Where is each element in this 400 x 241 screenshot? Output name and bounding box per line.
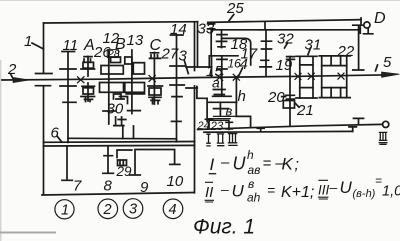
ring gear b box bottom xyxy=(208,116,237,120)
svg-text:D: D xyxy=(374,10,386,27)
svg-text:24: 24 xyxy=(197,120,210,132)
gear 20 clutch bars xyxy=(286,95,294,99)
svg-text:11: 11 xyxy=(63,37,79,54)
bearing T under line 25 xyxy=(259,22,272,30)
housing right wall xyxy=(194,22,196,193)
svg-text:–: – xyxy=(329,179,338,195)
housing left wall xyxy=(43,23,45,195)
sun gear a lower rungs xyxy=(213,90,231,97)
gear 18 stack xyxy=(217,30,228,48)
range circle 1 xyxy=(55,200,74,219)
gear column C xyxy=(153,53,155,105)
svg-text:K: K xyxy=(282,155,294,174)
svg-text:7: 7 xyxy=(73,178,82,195)
housing box left gearbox top edge xyxy=(44,22,198,23)
svg-text:C: C xyxy=(150,37,162,54)
svg-text:1: 1 xyxy=(61,203,69,219)
inner shelf line above divider xyxy=(68,137,177,140)
svg-text:32: 32 xyxy=(277,31,294,48)
gear block 31 xyxy=(300,56,313,98)
svg-text:23: 23 xyxy=(210,121,224,133)
svg-text:3: 3 xyxy=(179,48,188,65)
carrier h link xyxy=(235,77,237,102)
svg-text:A: A xyxy=(83,37,95,54)
svg-text:III: III xyxy=(318,183,330,198)
planetary frame wall xyxy=(198,22,212,67)
svg-text:6: 6 xyxy=(51,125,60,142)
shaft-hub cross at block 22 xyxy=(338,73,344,79)
divider lower line xyxy=(44,144,195,147)
clutch 33 xyxy=(208,24,215,56)
roman numeral III at output xyxy=(379,132,388,144)
clutch 24 xyxy=(205,119,212,128)
lower gearbox column 8 xyxy=(103,146,114,174)
svg-text:;: ; xyxy=(295,157,299,174)
gear column A xyxy=(87,57,89,102)
svg-text:27: 27 xyxy=(161,46,179,63)
svg-text:U: U xyxy=(233,154,247,174)
output arrow head xyxy=(382,72,400,78)
svg-text:5: 5 xyxy=(383,54,392,71)
crossbar on column 27 xyxy=(172,120,182,122)
svg-text:U: U xyxy=(340,178,353,197)
leader line label 1 xyxy=(32,43,44,49)
svg-text:Фиг. 1: Фиг. 1 xyxy=(193,216,255,239)
wall stud above divider xyxy=(133,126,135,139)
gear column 11 xyxy=(60,52,76,143)
gear 16 ladder / sun a xyxy=(217,56,227,96)
leader tick label 21 xyxy=(296,104,300,108)
lower gearbox column 9 open frame xyxy=(135,150,175,175)
brake D circle xyxy=(364,22,370,28)
brake D ground xyxy=(364,28,373,34)
svg-text:B: B xyxy=(115,36,126,53)
leader tick label 5 xyxy=(376,65,378,71)
frame wall step to ring gear box xyxy=(197,87,207,99)
svg-text:10: 10 xyxy=(167,173,184,190)
svg-text:21: 21 xyxy=(296,102,314,119)
svg-text:1,0: 1,0 xyxy=(382,184,400,200)
leader line label 3 xyxy=(184,61,188,74)
svg-text:8: 8 xyxy=(104,178,113,195)
svg-text:h: h xyxy=(238,88,246,105)
gear 21 box xyxy=(283,101,294,109)
gear 30 marks xyxy=(114,94,128,104)
svg-text:в: в xyxy=(226,104,233,119)
range circle 3 xyxy=(123,199,143,219)
roman numeral III on shaft xyxy=(228,134,238,146)
svg-text:29: 29 xyxy=(116,164,133,179)
top frame line 25 xyxy=(208,20,361,23)
gear 29 cluster xyxy=(117,150,132,158)
svg-text:30: 30 xyxy=(107,101,124,118)
svg-text:ah: ah xyxy=(247,191,261,205)
svg-text:31: 31 xyxy=(305,37,322,54)
shaft-hub cross at carrier h xyxy=(233,74,239,80)
svg-text:14: 14 xyxy=(170,21,187,38)
lower gearbox column 7 xyxy=(62,146,72,180)
svg-text:–: – xyxy=(220,181,229,197)
roman numeral II on shaft xyxy=(217,134,225,146)
svg-text:a: a xyxy=(212,75,220,91)
frame line to brake D xyxy=(213,29,360,31)
formula line 2: II - U b/ah = K+1; III - U(b-h) = 1,0 xyxy=(205,174,400,205)
ring gear b tooth xyxy=(214,102,229,116)
svg-text:19: 19 xyxy=(276,57,293,74)
shaft III lower frame line xyxy=(204,130,353,133)
input arrow head xyxy=(13,77,30,82)
shaft-hub cross mark at gear A xyxy=(78,77,85,83)
formula line 1: I - U h/ab = -K; xyxy=(209,148,299,177)
roman numeral I on shaft xyxy=(206,134,211,146)
main input shaft I xyxy=(2,75,384,80)
svg-text:33: 33 xyxy=(198,21,215,38)
svg-text:1: 1 xyxy=(24,33,32,50)
shaft III end circle xyxy=(383,121,389,127)
svg-text:K+1;: K+1; xyxy=(281,184,314,201)
svg-text:ав: ав xyxy=(248,163,261,177)
bearing bars on right wall xyxy=(186,67,197,88)
carrier bracket to shaft III xyxy=(236,102,250,127)
leader tick label 32 xyxy=(285,43,288,48)
shaft-hub crosses at block 31 xyxy=(295,73,314,79)
svg-text:9: 9 xyxy=(140,179,149,196)
clutch dash ends at brake D xyxy=(359,18,362,33)
leader line label 6 xyxy=(58,137,62,142)
lower gearbox column 10 bar xyxy=(170,163,180,165)
gear column 12 xyxy=(108,50,110,124)
leader tick label 20 dash xyxy=(282,96,286,98)
brake 32 column xyxy=(265,30,267,77)
svg-text:25: 25 xyxy=(226,0,244,17)
svg-text:(в-h): (в-h) xyxy=(353,188,376,200)
gear 30 stem to shelf xyxy=(122,126,124,139)
svg-text:4: 4 xyxy=(169,202,177,218)
label 28 frame xyxy=(107,50,118,58)
range circle 2 xyxy=(98,199,118,219)
svg-text:2: 2 xyxy=(103,202,112,218)
leader tick label 2 xyxy=(11,75,14,80)
output bearing column xyxy=(353,25,364,70)
gear column 14-27 xyxy=(176,35,178,142)
frame line end T-up xyxy=(349,127,356,131)
bearing bars on left wall at input shaft xyxy=(36,74,53,86)
svg-text:U: U xyxy=(232,182,245,201)
shaft-hub cross at sun a xyxy=(217,74,223,80)
svg-text:22: 22 xyxy=(337,43,355,60)
housing divider line 6 (double) xyxy=(44,141,195,144)
bearing T on frame line xyxy=(257,128,264,131)
svg-text:13: 13 xyxy=(127,32,144,49)
svg-text:4: 4 xyxy=(240,56,248,73)
housing bottom edge xyxy=(42,193,194,196)
svg-text:20: 20 xyxy=(267,89,285,106)
gear block 22 xyxy=(322,56,347,98)
svg-text:–: – xyxy=(220,154,230,171)
svg-text:2: 2 xyxy=(7,61,17,78)
shaft-hub cross mark at gear C xyxy=(149,76,155,82)
shaft III upper line xyxy=(198,124,382,129)
svg-text:=: = xyxy=(375,174,382,188)
range circle 4 xyxy=(163,199,183,219)
gear 19 column clutch xyxy=(289,57,291,108)
clutch 23 xyxy=(226,122,232,129)
gear 30 lower box xyxy=(114,117,126,126)
closed-loop housing 17 (rounded box) xyxy=(223,38,251,65)
gear column 13 B xyxy=(131,50,133,114)
svg-text:I: I xyxy=(210,155,215,174)
leader tick label 31 xyxy=(308,48,311,55)
svg-text:=: = xyxy=(267,182,275,198)
inner box 16 top xyxy=(209,56,238,67)
svg-text:3: 3 xyxy=(129,202,137,218)
leader tick label 4 xyxy=(239,68,243,76)
svg-text:в: в xyxy=(248,177,254,191)
svg-text:II: II xyxy=(205,184,213,201)
leader tick label 25 xyxy=(229,14,234,20)
gear 15 stem xyxy=(211,56,213,76)
bearing T on shaft III near output xyxy=(354,118,364,124)
gear 21 shaft stub to line III xyxy=(289,108,291,125)
svg-text:h: h xyxy=(247,148,254,162)
ring gear b box xyxy=(207,98,236,121)
